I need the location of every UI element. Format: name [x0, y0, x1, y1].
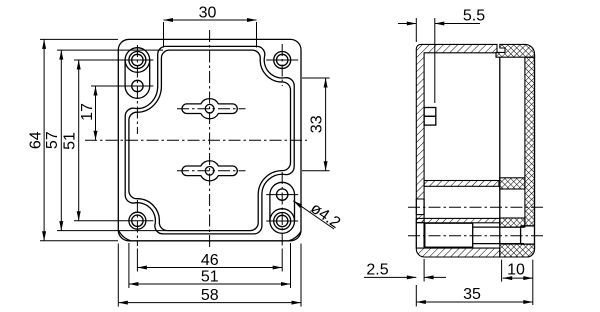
- dimension 51 (bottom): [129, 243, 291, 288]
- dimension 2.5 (bottom left): [364, 259, 446, 282]
- vertical centerline (front view): [209, 30, 211, 249]
- pcb mounting boss lower (slot + hole): [177, 161, 246, 181]
- svg-text:17: 17: [79, 103, 96, 121]
- lid outer edge line (front view): [125, 46, 294, 234]
- dimension 17 (left): [79, 86, 122, 140]
- axis of mounting hole (side view): [408, 206, 544, 208]
- lid screw BL: [121, 212, 153, 229]
- screw counterbore arc TL: [125, 60, 150, 72]
- leader and label dia 4.2: [293, 200, 343, 232]
- horizontal centerline (front view): [85, 139, 307, 141]
- svg-text:2.5: 2.5: [366, 261, 388, 278]
- mounting hole BR (dia 4.2): [266, 189, 298, 200]
- hole column centerline BL: [136, 200, 138, 246]
- lid screw clearance notch: [521, 226, 535, 244]
- svg-text:51: 51: [61, 132, 78, 150]
- dimension 46 (bottom): [137, 249, 282, 272]
- hole column centerline BR: [281, 172, 283, 246]
- svg-text:46: 46: [201, 252, 219, 269]
- side view: lid screw boss barrel: [425, 223, 524, 247]
- screw boss pocket TL (obround): [125, 48, 150, 99]
- svg-text:58: 58: [201, 287, 219, 304]
- dimension 58 (bottom): [118, 244, 301, 307]
- corner boss arc BR: [289, 231, 301, 241]
- dimension 33 (right): [302, 78, 330, 171]
- enclosure body outline (front view): [118, 39, 301, 240]
- svg-text:5.5: 5.5: [463, 8, 485, 25]
- dimension 57 (left): [44, 50, 166, 231]
- side view: box walls (hatched section): [416, 44, 500, 257]
- svg-text:10: 10: [507, 262, 525, 279]
- dimension 5.5 (top): [398, 8, 485, 104]
- side view: rib steps on wall: [424, 108, 436, 126]
- dimension 35 (bottom): [416, 285, 533, 307]
- lid screw BR: [266, 213, 298, 230]
- lid screw TL: [121, 52, 153, 69]
- svg-text:30: 30: [199, 5, 217, 22]
- pcb mounting boss upper (slot + hole): [177, 99, 246, 119]
- hole column centerline TL: [136, 45, 138, 134]
- svg-text:57: 57: [44, 131, 61, 149]
- lid outer edge line: [534, 54, 536, 250]
- dimension 64 (left): [28, 39, 119, 240]
- side view: boss cavity floor (hatched): [416, 218, 500, 222]
- screw boss pocket BR (obround): [270, 182, 295, 233]
- axis of lid screw (side view): [408, 235, 544, 237]
- dimension 30 (top): [164, 5, 257, 48]
- side view: internal shelf (hatched): [424, 181, 499, 187]
- svg-text:51: 51: [201, 268, 219, 285]
- lid screw TR: [266, 52, 298, 69]
- lid inner face line: [499, 57, 501, 244]
- screw counterbore arc BR: [270, 209, 295, 221]
- svg-text:64: 64: [28, 131, 45, 149]
- lid section (cross-hatched): [496, 44, 535, 257]
- dimension 10 (bottom right): [502, 260, 533, 305]
- svg-text:33: 33: [309, 115, 326, 133]
- lid inner chamfer line (front view): [129, 50, 291, 231]
- mounting hole TL (dia 4.2): [121, 80, 153, 91]
- corner boss arc BL: [118, 230, 130, 241]
- dimension 51 (left, screw pitch): [61, 60, 122, 221]
- hole column centerline TR: [281, 44, 283, 86]
- svg-text:35: 35: [463, 286, 481, 303]
